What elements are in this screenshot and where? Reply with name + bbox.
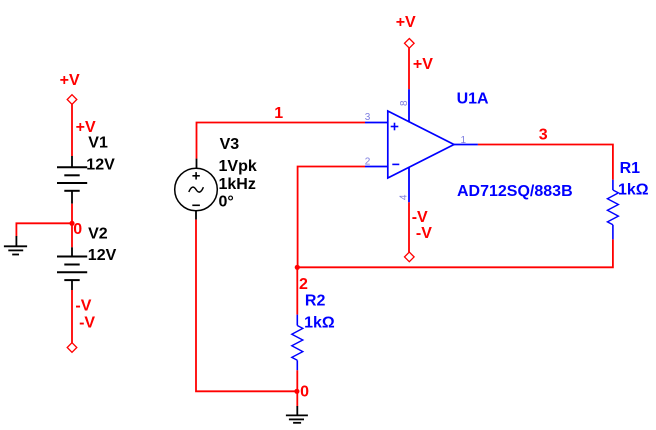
svg-text:R1: R1	[620, 160, 641, 177]
ac source V3	[175, 159, 218, 220]
power symbol +V diamond (op-amp)	[405, 39, 415, 49]
svg-text:V2: V2	[88, 226, 108, 243]
wire net 1: V3 top to op-amp pin 3	[197, 123, 366, 159]
svg-text:12V: 12V	[86, 157, 115, 174]
svg-text:12V: 12V	[88, 247, 117, 264]
resistor R1	[607, 180, 618, 240]
ground (left)	[4, 236, 27, 255]
power symbol -V diamond (op-amp)	[405, 252, 415, 262]
pin 3 lead	[365, 122, 388, 124]
pin 2 lead	[365, 166, 388, 168]
wire pin 4 to -V diamond	[408, 202, 410, 252]
svg-text:AD712SQ/883B: AD712SQ/883B	[457, 183, 573, 200]
svg-text:-V: -V	[75, 298, 91, 315]
pin 8 lead (V+)	[408, 89, 410, 122]
pin 1 lead (output)	[454, 144, 478, 146]
junction node 2	[295, 265, 300, 270]
svg-text:2: 2	[365, 157, 371, 168]
svg-text:-V: -V	[79, 314, 95, 331]
wire V1 to node 0	[71, 204, 73, 224]
svg-text:R2: R2	[305, 293, 326, 310]
wire V2 to -V diamond	[71, 290, 73, 343]
pin 4 lead (V-)	[408, 167, 410, 202]
svg-text:0: 0	[73, 221, 82, 238]
svg-text:+V: +V	[76, 119, 96, 136]
svg-text:3: 3	[539, 126, 548, 143]
svg-text:V1: V1	[88, 135, 108, 152]
wire +V diamond to V1	[71, 104, 73, 156]
ground (bottom)	[286, 406, 308, 423]
op-amp - input marker	[392, 163, 399, 165]
svg-text:-V: -V	[412, 209, 428, 226]
op-amp + input marker	[391, 123, 399, 131]
wire R1 bottom to node 2	[297, 239, 613, 267]
svg-text:1: 1	[461, 135, 467, 146]
svg-text:1kΩ: 1kΩ	[618, 182, 649, 199]
battery V2	[57, 247, 87, 290]
svg-text:+V: +V	[60, 72, 80, 89]
power symbol +V diamond (V1 rail)	[67, 95, 77, 105]
power symbol -V diamond (V2 rail)	[67, 343, 77, 353]
svg-text:4: 4	[399, 194, 410, 200]
svg-text:-V: -V	[416, 225, 432, 242]
junction node 0 (bottom)	[294, 389, 299, 394]
wire node 0 to ground (bottom)	[296, 391, 298, 406]
resistor R2	[292, 315, 303, 371]
junction node 0 (left)	[69, 221, 74, 226]
wire pin 2 to node 2	[298, 167, 365, 268]
svg-text:+V: +V	[413, 56, 433, 73]
wire R2 bottom to node 0	[296, 370, 298, 391]
svg-text:V3: V3	[220, 136, 240, 153]
svg-text:1Vpk: 1Vpk	[219, 158, 257, 175]
battery V1	[57, 156, 87, 204]
svg-text:2: 2	[299, 276, 308, 293]
wire node 2 to R2	[296, 267, 298, 314]
wire net 3: output to R1	[478, 145, 613, 180]
wire +V diamond to pin 8	[408, 48, 410, 89]
wire V3 bottom to node 0 (bottom)	[196, 220, 297, 392]
svg-text:8: 8	[399, 100, 410, 106]
svg-text:1kΩ: 1kΩ	[304, 315, 335, 332]
wire node 0 to V2	[71, 223, 73, 247]
svg-text:1kHz: 1kHz	[219, 176, 256, 193]
svg-text:0: 0	[300, 384, 309, 401]
svg-text:U1A: U1A	[457, 90, 489, 107]
svg-text:+V: +V	[396, 14, 416, 31]
svg-text:3: 3	[365, 112, 371, 123]
wire node 0 to ground (left)	[16, 223, 72, 236]
svg-text:0°: 0°	[219, 193, 234, 210]
svg-text:1: 1	[274, 105, 283, 122]
op-amp U1A triangle	[388, 111, 454, 178]
